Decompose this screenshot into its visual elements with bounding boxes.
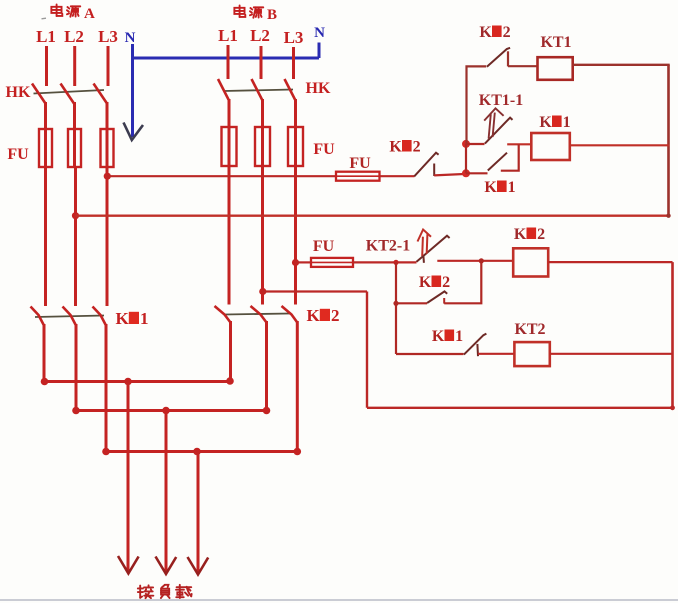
contact KT2-1 delayed blade (417, 236, 450, 262)
node junction upper (dot) (462, 140, 470, 148)
bottom page border line (0, 599, 678, 601)
wire node up to KT1 branch (467, 66, 487, 143)
switch KM1 linkage bar (35, 316, 104, 318)
wire KM1 out 3 (105, 324, 108, 452)
switch HK-A blade 1 (32, 84, 46, 104)
svg-text:KT2-1: KT2-1 (366, 238, 410, 255)
contact KM2 NO riser (507, 51, 509, 66)
node line3 left (dot) (102, 448, 110, 456)
label KM1 (coil) (539, 114, 570, 131)
svg-text:HK: HK (306, 80, 331, 97)
svg-text:K: K (479, 24, 492, 41)
svg-text:K: K (514, 226, 527, 243)
svg-text:2: 2 (442, 274, 450, 291)
label 电源A (Power source A) (51, 4, 80, 16)
wire load line 1 (127, 382, 130, 572)
wire B3 tap to fuse (296, 261, 312, 263)
label 电源B (Power source B) (234, 5, 263, 17)
node line3 right (dot) (294, 448, 302, 456)
label KM2 (coil) (514, 226, 545, 243)
wire bus line 2 (76, 409, 267, 412)
svg-text:FU: FU (7, 146, 29, 163)
node line2 load tap (dot) (162, 407, 170, 415)
wire right rail lower (671, 262, 674, 408)
svg-text:K: K (484, 179, 497, 196)
symbol KT2-1 delay arrow (418, 230, 432, 257)
wire KM2 out 1 (229, 321, 232, 382)
label KM2 (NC interlock contact) (389, 139, 420, 156)
wire bus line 1 (44, 380, 231, 383)
node line2 left (dot) (72, 407, 80, 415)
wire KT1 coil to right rail (573, 64, 670, 66)
node KM2 branch (dot) (393, 301, 398, 306)
wire phase B1 upper (227, 45, 230, 79)
svg-text:K: K (419, 274, 432, 291)
wire riser to KT1 coil (508, 65, 538, 67)
svg-text:K: K (307, 306, 321, 325)
contact KT2-1 stop tick (422, 256, 425, 263)
arrow head load 3 (188, 557, 209, 575)
svg-text:K: K (432, 328, 445, 345)
switch KM2 blade 3 (282, 306, 298, 323)
wire phase B1 to fuse (228, 99, 231, 128)
svg-text:B: B (267, 7, 277, 23)
wire KM1 out 1 (43, 324, 46, 382)
svg-text:A: A (84, 6, 95, 22)
contact KM2 NO self-hold blade (427, 291, 447, 303)
wire KM2 out 2 (265, 321, 268, 411)
node junction lower (dot) (462, 169, 470, 177)
contact KM1 NC blade (464, 334, 487, 355)
wire load line 3 (197, 452, 200, 573)
wire node to KT1-1 contact (466, 143, 485, 145)
wire phase A1 upper (45, 46, 48, 86)
wire KM1 self-hold L-link (501, 144, 519, 170)
wire outer left rail (366, 292, 368, 408)
switch HK-B blade 2 (252, 79, 263, 101)
switch KM1 blade 2 (63, 307, 77, 326)
wire return line row 2 (to A2) (76, 214, 669, 216)
node bottom right corner (dot) (670, 405, 675, 410)
label KM1 (main contacts) (116, 309, 149, 328)
svg-text:2: 2 (331, 306, 340, 325)
wire fuse to KM2 NC contact (380, 175, 415, 177)
svg-text:N: N (125, 30, 136, 46)
wire phase B2 to fuse (261, 99, 264, 128)
wire node vertical link (465, 144, 467, 173)
wire phase B2 upper (260, 46, 263, 79)
wire phase A3 fuse to KM1 (106, 167, 109, 306)
wire rail corner to KM1 NC contact (396, 353, 464, 355)
wire rail to KM2 self-hold blade (396, 302, 427, 304)
node selfhold merge (dot) (479, 258, 484, 263)
switch HK-A blade 2 (61, 84, 75, 104)
contact KM2 NO blade (top) (487, 48, 510, 67)
node line2 right (dot) (263, 407, 271, 415)
switch KM1 blade 3 (93, 307, 107, 326)
fuse FU-B2 (255, 127, 270, 166)
wire phase B3 upper (292, 47, 295, 79)
switch KM2 blade 2 (251, 306, 267, 323)
svg-text:FU: FU (349, 155, 371, 172)
wire KM2 NC to node (434, 174, 464, 175)
svg-text:1: 1 (508, 179, 516, 196)
label KM1 (NC interlock contact) (432, 328, 463, 345)
label KM2 (main contacts) (307, 306, 340, 325)
wire phase A2 fuse to KM1 (74, 167, 77, 306)
contact KM2 NO riser (443, 298, 445, 304)
node tap A2 return line (72, 212, 79, 219)
label KM1 (self-hold contact) (484, 179, 515, 196)
switch KM2 linkage bar (225, 314, 291, 315)
node line3 load tap (dot) (193, 448, 201, 456)
node line1 right (dot) (226, 377, 234, 385)
label KM2 (self-hold contact) (419, 274, 450, 291)
wire fuse to KT2-1 contact (353, 261, 417, 263)
wire KT2 coil to right rail (550, 353, 673, 355)
svg-text:1: 1 (140, 309, 149, 328)
coil KT2 (514, 342, 549, 366)
wire bottom return line (367, 407, 673, 409)
svg-text:L2: L2 (64, 27, 84, 46)
svg-text:KT2: KT2 (514, 321, 545, 338)
svg-text:HK: HK (6, 84, 31, 101)
svg-text:L2: L2 (250, 26, 270, 45)
contact KM1 NC stop tick (476, 344, 479, 356)
wire right rail upper (667, 65, 670, 217)
wire control row 1 feed from A3 (107, 175, 336, 177)
wire phase A3 to fuse (106, 102, 109, 130)
switch HK-B blade 1 (218, 79, 229, 101)
contact KT1-1 delayed blade (485, 118, 513, 144)
svg-text:N: N (314, 25, 325, 41)
svg-text:K: K (389, 139, 402, 156)
wire KM1 NC to KT2 coil (478, 353, 514, 355)
node tap B2 lower feed (259, 288, 266, 295)
switch HK-B blade 3 (285, 79, 296, 101)
wire phase B3 to fuse (294, 99, 297, 128)
switch HK-A blade 3 (94, 84, 108, 104)
svg-text:1: 1 (455, 328, 463, 345)
wire B2 feed to outer rail (263, 290, 367, 292)
svg-text:K: K (539, 114, 552, 131)
svg-text:KT1: KT1 (540, 34, 571, 51)
svg-text:L3: L3 (284, 28, 304, 47)
wire KM1 out 2 (75, 324, 78, 411)
switch HK-B linkage bar (224, 90, 293, 92)
svg-text:L1: L1 (218, 26, 238, 45)
svg-text:FU: FU (313, 238, 335, 255)
svg-text:2: 2 (413, 139, 421, 156)
svg-text:L1: L1 (36, 27, 56, 46)
wire KT1-1 to KM1 coil (507, 143, 531, 145)
wire phase B3 fuse to KM2 (294, 166, 297, 305)
symbol KT1-1 delay arrow (484, 108, 503, 138)
arrow head load 2 (156, 557, 177, 575)
fuse FU-B1 (222, 127, 237, 166)
svg-text:K: K (116, 309, 130, 328)
wire phase B1 fuse to KM2 (228, 166, 231, 305)
fuse FU control row 2 (311, 258, 353, 267)
wire phase A1 to fuse (44, 102, 47, 130)
wire load line 2 (165, 411, 168, 572)
contact KM2 NC blade (414, 153, 438, 177)
svg-text:L3: L3 (98, 27, 118, 46)
wire phase A3 upper (107, 46, 110, 86)
node line1 load tap (dot) (124, 378, 132, 386)
node return corner (dot) (666, 214, 670, 218)
node tap A3 control row 1 (104, 173, 111, 180)
node line1 left (dot) (41, 378, 49, 386)
fuse FU-A2 (68, 129, 81, 167)
label KM2 (NO contact feeding KT1) (479, 24, 510, 41)
arrow head N (blue chevron) (124, 123, 144, 141)
wire phase A2 to fuse (73, 102, 76, 130)
switch HK-A linkage bar (34, 90, 105, 94)
wire phase A1 fuse to KM1 (44, 167, 47, 306)
svg-text:FU: FU (313, 141, 335, 158)
fuse FU-A1 (39, 129, 52, 167)
wire bus line 3 (106, 450, 297, 453)
svg-text:2: 2 (537, 226, 545, 243)
switch KM1 blade 1 (31, 307, 45, 326)
wire node to KM1 self-hold contact (466, 172, 488, 174)
wire phase A2 upper (73, 46, 76, 86)
wire inner rail (KM2 branch rail) (395, 262, 397, 354)
fuse FU-B3 (288, 127, 303, 166)
switch KM2 blade 1 (215, 306, 231, 323)
wire KM2 out 3 (296, 321, 299, 452)
coil KM2 (513, 248, 548, 276)
node rail1 tap (dot) (393, 260, 398, 265)
wire KT2-1 to KM2 coil (437, 260, 513, 262)
label 接负载 (to load) (138, 585, 192, 598)
fuse FU control row 1 (336, 172, 380, 181)
coil KT1 (538, 57, 573, 80)
contact KM2 NC stop tick (433, 164, 435, 177)
coil KM1 (531, 133, 570, 160)
wire self-hold to merge riser (444, 261, 481, 303)
wire KM2 coil to right rail (548, 261, 672, 263)
svg-text:2: 2 (503, 24, 511, 41)
svg-text:1: 1 (563, 114, 571, 131)
contact KM1 NO self-hold blade (488, 153, 507, 171)
node tap B3 control row 2 (292, 259, 299, 266)
wire neutral N blue (133, 43, 320, 138)
wire KM1 coil to right rail (570, 144, 670, 146)
svg-text:KT1-1: KT1-1 (479, 92, 523, 109)
fuse FU-A3 (101, 129, 114, 167)
arrow head load 1 (118, 556, 139, 574)
stray mark (42, 17, 47, 20)
wire phase B2 fuse to KM2 (261, 166, 264, 305)
